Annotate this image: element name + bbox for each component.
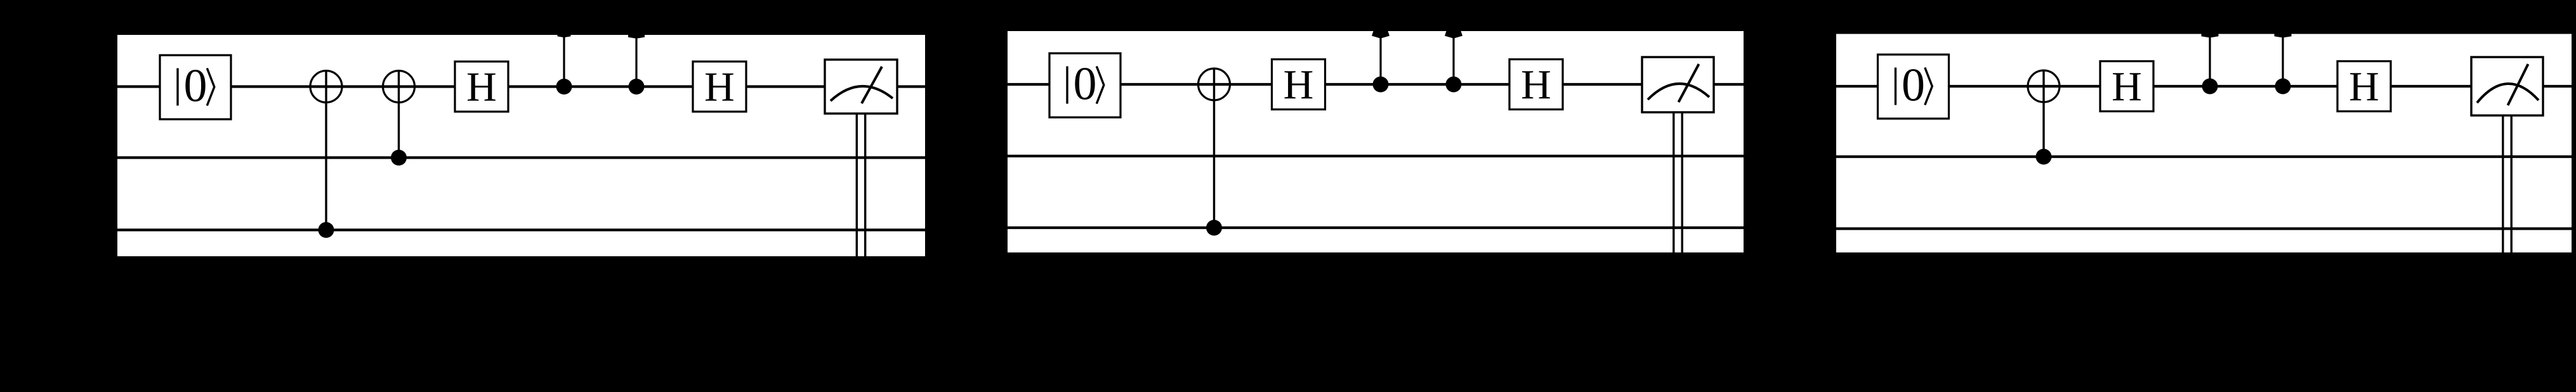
svg-text:H: H (2112, 63, 2142, 110)
svg-text:0: 0 (1074, 58, 1097, 110)
svg-text:0: 0 (1902, 60, 1925, 112)
svg-text:H: H (1284, 62, 1314, 108)
svg-text:H: H (466, 63, 497, 110)
svg-text:H: H (1521, 62, 1551, 108)
svg-text:H: H (704, 63, 735, 110)
svg-text:H: H (2349, 63, 2379, 110)
svg-text:0: 0 (184, 60, 207, 112)
